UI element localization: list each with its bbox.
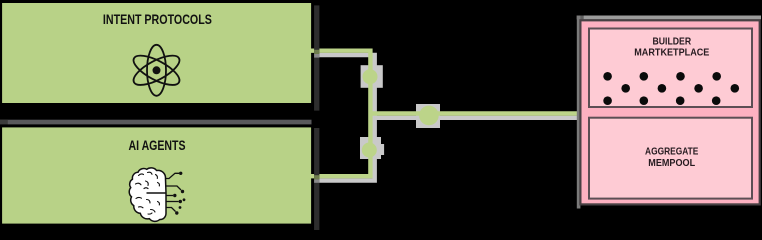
wire shadow: middle branch to mempool (375, 116, 582, 120)
node B (junction on middle branch) (419, 106, 439, 126)
builder dots row 3 (603, 96, 720, 105)
node B shadow square (416, 104, 440, 128)
svg-text:MARTKETPLACE: MARTKETPLACE (634, 47, 710, 59)
inner box BUILDER MARTKETPLACE (589, 29, 752, 108)
inner box AGGREGATE MEMPOOL (589, 118, 752, 199)
divider bar between green boxes (0, 120, 312, 125)
node C shadow notch (circle shadow) (381, 144, 385, 155)
node A (junction on trunk, top) (363, 69, 378, 84)
svg-text:MEMPOOL: MEMPOOL (648, 158, 695, 170)
builder/mempool container: shadow strip left (577, 16, 581, 209)
wire: C-shaped trunk from INTENT PROTOCOLS down to AI AGENTS (310, 51, 370, 177)
svg-text:AI AGENTS: AI AGENTS (129, 138, 186, 154)
svg-text:INTENT PROTOCOLS: INTENT PROTOCOLS (103, 12, 212, 28)
wire crossing over strip (muted green) (314, 50, 319, 54)
wire crossing over strip (muted green) (314, 175, 319, 179)
atom nucleus (153, 66, 161, 74)
svg-text:BUILDER: BUILDER (652, 35, 691, 47)
builder/mempool container: shadow bar top (577, 16, 761, 20)
wire shadow: C-shaped trunk (top branch, trunk, bottom branch) (314, 55, 374, 181)
icon atom (3 ellipses + nucleus) (130, 45, 184, 96)
box INTENT PROTOCOLS (1, 2, 313, 105)
wire shadow crossing over strip (muted gray) (314, 179, 319, 182)
node C (junction on trunk, bottom) (362, 143, 377, 158)
container box (pink outer) (580, 20, 759, 204)
brain fold squiggles (136, 172, 160, 214)
shadow bar top: darker left cap (577, 16, 584, 20)
wire shadow crossing over strip (muted gray) (314, 54, 319, 58)
circuit traces with dots (165, 173, 181, 211)
svg-text:AGGREGATE: AGGREGATE (645, 146, 698, 157)
brain hemisphere divider (147, 192, 167, 194)
node C shadow square (360, 137, 381, 159)
box INTENT PROTOCOLS: shadow strip right (314, 5, 319, 110)
brain cloud outline (white fill) (129, 168, 166, 222)
wire: middle branch to aggregate mempool (370, 111, 580, 115)
builder dots row 1 (603, 72, 721, 81)
divider bar darker left cap (0, 120, 8, 125)
builder dots row 2 (offset) (621, 84, 739, 93)
icon AI brain with circuit traces (129, 168, 185, 222)
box AI AGENTS: shadow strip right (314, 128, 319, 230)
node A shadow square (361, 65, 383, 88)
box AI AGENTS (1, 126, 313, 225)
